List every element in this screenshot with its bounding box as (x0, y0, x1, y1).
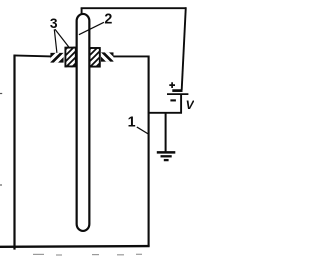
wire junction horizontal to box (148, 112, 182, 114)
scan noise marks (0, 94, 142, 256)
leader line for 3 to small left seal (54, 29, 57, 53)
svg-text:3: 3 (50, 16, 58, 31)
svg-text:2: 2 (104, 12, 112, 28)
svg-text:V: V (186, 98, 194, 112)
wire ground stub (165, 112, 167, 152)
vessel box right edge (148, 56, 150, 247)
battery V plus sign (169, 82, 175, 88)
seal block 3 large left (hatched) (47, 46, 94, 69)
seal block 3 large right (hatched) (70, 46, 117, 69)
wire battery to junction (180, 95, 182, 114)
vessel box top edge right segment (113, 55, 149, 57)
tube 2 (rounded glass tube through seals) (77, 14, 90, 231)
vessel box top edge left segment (14, 55, 52, 56)
battery V top plate (short thick) (172, 89, 182, 92)
battery V bottom plate (long thin) (167, 93, 188, 95)
battery V minus sign (170, 99, 176, 101)
ground bar 3 (164, 159, 169, 161)
leader line for 3 to large left seal (55, 29, 69, 47)
wire right vertical (to battery +) (182, 7, 186, 90)
vessel box left edge (13, 55, 15, 250)
ground bar 2 (161, 155, 172, 157)
seal block 3 small left (hatched) (46, 51, 68, 65)
ground bar 1 (157, 151, 176, 154)
wire stub from tube top (81, 8, 83, 15)
leader line for 1 (137, 127, 149, 134)
wire top horizontal (81, 7, 187, 9)
seal block small right (hatched) (96, 50, 119, 65)
svg-text:1: 1 (128, 115, 136, 131)
leader line for 2 (79, 22, 104, 34)
vessel box bottom edge (0, 245, 150, 248)
